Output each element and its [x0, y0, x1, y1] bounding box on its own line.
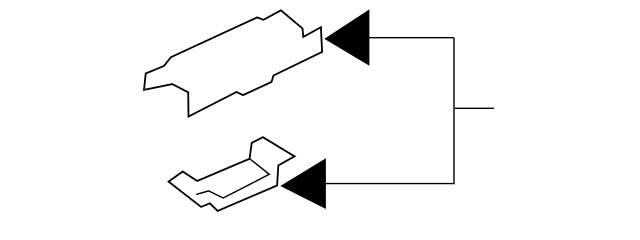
arrow 1 (upper, solid black, pointing left)	[325, 10, 369, 65]
part: lower bracket outline	[169, 137, 295, 211]
part: upper heat shield outline	[144, 10, 322, 116]
wire: lower leader line	[325, 183, 454, 185]
arrow 2 (lower, solid black, pointing left)	[281, 159, 325, 208]
part: lower bracket inner fold line	[196, 159, 269, 198]
wire: vertical connector	[453, 38, 455, 184]
wire: upper leader line	[369, 37, 455, 39]
wire: right stub	[454, 107, 494, 109]
